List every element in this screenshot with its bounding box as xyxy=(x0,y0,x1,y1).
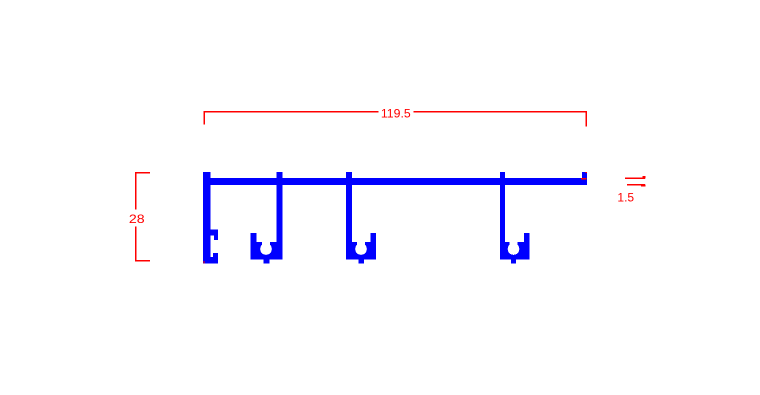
left leg xyxy=(203,172,210,264)
dimension 1.5 upper line xyxy=(625,177,645,179)
dimension 119.5 left tick xyxy=(203,111,205,125)
hook 3 bottom tab xyxy=(511,259,516,263)
dimension 28 bottom tick xyxy=(135,260,150,262)
dimension 1.5 tick across right tab xyxy=(581,178,587,180)
dimension 28 line upper segment xyxy=(135,172,137,210)
red dot at right tab corner xyxy=(586,172,587,173)
dimension 119.5 right tick xyxy=(586,111,588,127)
hook 2 bowl with keyhole xyxy=(346,242,376,260)
top tab T1 (above stem 1) xyxy=(276,172,282,179)
C-slot bottom foot lip xyxy=(213,253,218,257)
hook 3 right wall xyxy=(524,233,530,259)
hook 2 bottom tab xyxy=(358,259,364,263)
dimension 1.5 upper line end tick xyxy=(643,176,646,178)
hook 1 stem xyxy=(276,185,282,260)
C-slot top arm lip xyxy=(214,235,218,240)
red mark at leg bottom xyxy=(203,261,204,263)
profile main top bar xyxy=(203,178,587,185)
C-slot top arm xyxy=(211,230,219,236)
dimension 28 line lower segment xyxy=(135,227,137,262)
dimension 1.5 lower line xyxy=(627,184,645,186)
hook 2 right wall xyxy=(370,233,376,259)
svg-text:119.5: 119.5 xyxy=(381,106,411,120)
hook 2 stem xyxy=(346,185,352,260)
top tab right end xyxy=(582,172,587,179)
hook 3 bowl with keyhole xyxy=(500,242,530,260)
dimension 119.5 line left segment xyxy=(204,111,379,113)
hook 3 stem xyxy=(500,185,505,260)
svg-text:28: 28 xyxy=(129,212,145,226)
svg-text:1.5: 1.5 xyxy=(617,191,634,205)
hook 1 bowl with keyhole xyxy=(251,242,283,260)
hook 1 left wall xyxy=(251,233,257,259)
hook 1 bottom tab xyxy=(264,259,270,263)
dimension 119.5 line right segment xyxy=(414,111,588,113)
top tab T2 (above stem 2) xyxy=(346,172,352,179)
top tab T3 (above stem 3) xyxy=(500,172,505,179)
dimension 1.5 lower line end tick xyxy=(641,184,646,186)
dimension 28 top tick xyxy=(135,172,150,174)
C-slot bottom foot xyxy=(203,257,218,264)
